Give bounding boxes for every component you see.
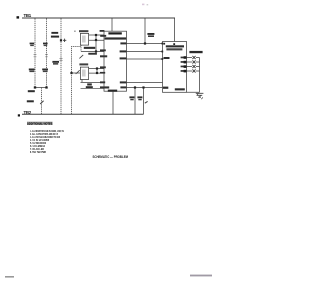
capacitor C5 bbox=[129, 86, 136, 114]
wire sense line bbox=[72, 45, 82, 114]
page number left bbox=[5, 276, 14, 278]
wire to U1B input bbox=[72, 72, 81, 74]
wire top supply bus bbox=[22, 17, 175, 19]
node on sense line bbox=[70, 72, 72, 74]
LED D1 bbox=[184, 56, 200, 59]
LED D3 bbox=[184, 65, 200, 68]
wire bottom return bus bbox=[22, 113, 144, 115]
wire feedback U1A bbox=[95, 35, 97, 52]
test point TP1 label bbox=[28, 90, 35, 92]
pin label VCC U2 bbox=[100, 30, 105, 32]
wire bus drop to C1 bbox=[34, 19, 36, 88]
switch S1 bbox=[27, 100, 44, 104]
wire U2 ground to return bus bbox=[112, 91, 114, 114]
pin marks U3 left bbox=[161, 43, 163, 60]
IC U3 LED driver bbox=[163, 42, 187, 93]
page number right bbox=[190, 275, 212, 277]
terminal TB- bbox=[18, 114, 20, 116]
capacitor C1 bbox=[29, 43, 37, 73]
label LED group bbox=[189, 51, 202, 53]
scan dot bbox=[74, 31, 75, 32]
svg-text:8. TB1 TB2 PWR: 8. TB1 TB2 PWR bbox=[30, 150, 47, 154]
capacitor C6 bbox=[137, 86, 147, 114]
svg-text:ADDITIONAL NOTES: ADDITIONAL NOTES bbox=[27, 122, 53, 126]
op-amp U1B bbox=[79, 63, 104, 88]
terminal TB+ bbox=[17, 16, 20, 18]
IC U2 switching regulator bbox=[100, 31, 127, 92]
wire mark near U1B input bbox=[76, 70, 80, 74]
wire U3 supply from bus bbox=[174, 18, 176, 42]
wire LED common rail bbox=[187, 58, 200, 93]
op-amp U1A bbox=[79, 30, 97, 55]
wire bus drop to C3 bbox=[60, 19, 62, 115]
capacitor C3 polarized bbox=[51, 32, 66, 65]
wire U2 supply from bus bbox=[111, 18, 113, 31]
wire feedback U1B bbox=[96, 69, 98, 74]
node dots U1A bbox=[95, 34, 97, 53]
wire U2 outputs to U3 bbox=[127, 44, 163, 88]
label TB- bbox=[24, 110, 32, 115]
svg-text:SCHEMATIC — PROBLEM: SCHEMATIC — PROBLEM bbox=[93, 155, 129, 159]
node junction dots bbox=[34, 86, 48, 88]
punch hole marks bbox=[142, 4, 144, 6]
wire junction of C1 C2 to return bbox=[35, 87, 47, 89]
label TB+ bbox=[24, 13, 32, 18]
node on C3 branch bbox=[60, 39, 62, 41]
resistor R2 drop from bus bbox=[144, 18, 146, 44]
capacitor C2 bbox=[42, 43, 48, 73]
LED D2 bbox=[184, 60, 200, 63]
node dot R2 bbox=[144, 33, 155, 45]
notes list bbox=[30, 129, 64, 154]
svg-text:TB1: TB1 bbox=[24, 13, 32, 18]
node dots U1B bbox=[96, 67, 98, 74]
wire U1B output pins to U2 bbox=[81, 69, 105, 83]
wire mark near U1A bbox=[79, 55, 83, 59]
wire U1A output pins to U2 bbox=[81, 35, 104, 52]
LED D4 bbox=[184, 69, 200, 72]
notes heading bbox=[5, 4, 212, 278]
ground bbox=[196, 93, 204, 99]
pin labels U3 right bbox=[181, 57, 185, 72]
wire bus drop to C2 bbox=[46, 19, 48, 88]
